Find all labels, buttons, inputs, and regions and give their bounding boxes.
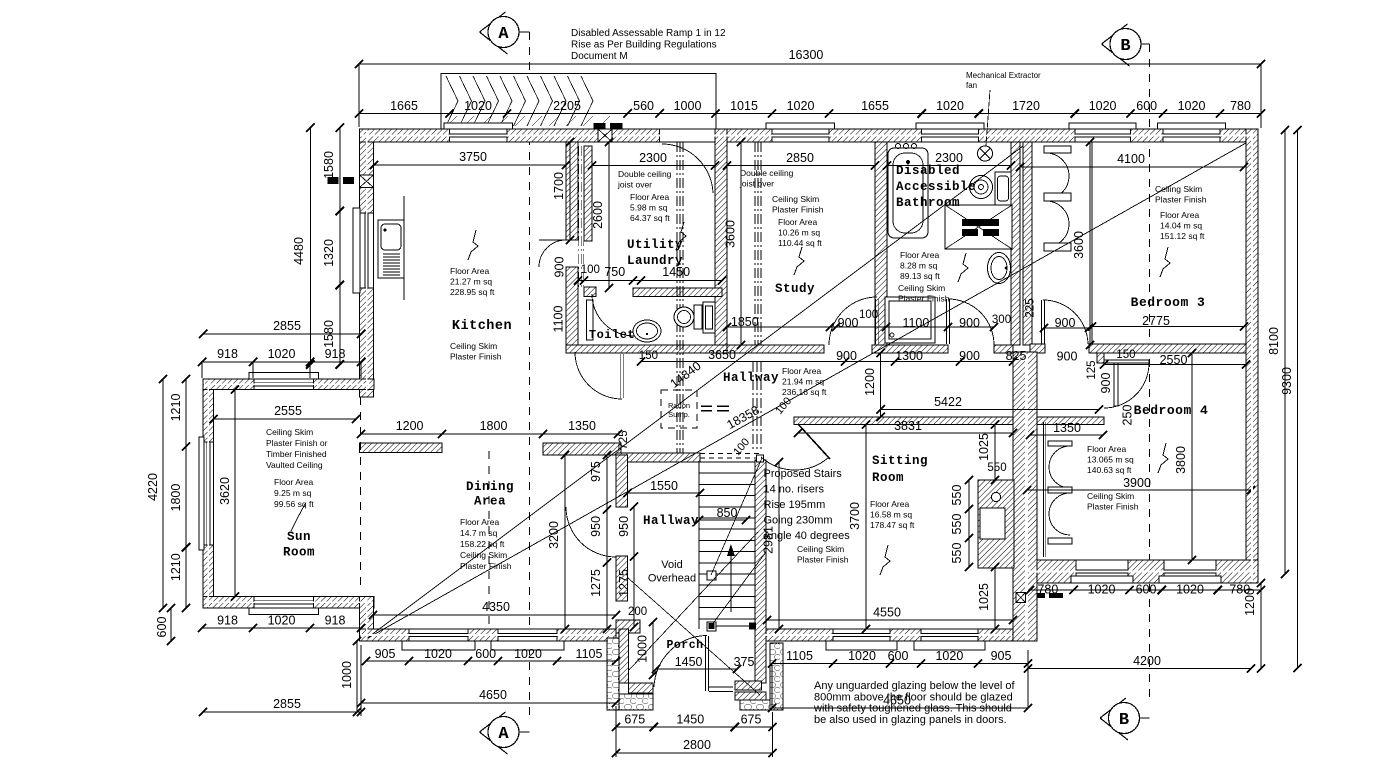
svg-text:1020: 1020 bbox=[464, 99, 492, 113]
svg-text:5.98 m sq: 5.98 m sq bbox=[630, 203, 668, 213]
svg-text:Any unguarded glazing below th: Any unguarded glazing below the level of bbox=[814, 680, 1016, 692]
wall study-bath divider bbox=[875, 142, 887, 345]
svg-text:1800: 1800 bbox=[169, 484, 183, 512]
svg-text:Vaulted Ceiling: Vaulted Ceiling bbox=[266, 460, 323, 470]
svg-text:joist over: joist over bbox=[739, 179, 774, 189]
svg-text:Sitting: Sitting bbox=[872, 454, 928, 468]
wall hall top d bbox=[994, 345, 1013, 353]
dim kitchen 3750 bbox=[374, 164, 566, 166]
window sitting b 1020 bbox=[921, 629, 978, 641]
bathroom shower bbox=[945, 205, 1012, 249]
svg-text:2981: 2981 bbox=[762, 526, 776, 554]
dim dining 3200 bbox=[564, 455, 566, 629]
svg-text:2775: 2775 bbox=[1142, 314, 1170, 328]
svg-text:2855: 2855 bbox=[273, 319, 301, 333]
svg-text:joist over: joist over bbox=[617, 180, 652, 190]
dpc marks left bbox=[328, 177, 339, 184]
svg-text:89.13 sq ft: 89.13 sq ft bbox=[900, 271, 940, 281]
svg-text:Ceiling Skim: Ceiling Skim bbox=[450, 341, 497, 351]
dim fireplace 1025 lower bbox=[994, 567, 996, 629]
svg-text:Ceiling Skim: Ceiling Skim bbox=[266, 427, 313, 437]
diagonal 18358 bbox=[366, 143, 1246, 639]
dim bed3 2775 bbox=[1092, 326, 1244, 328]
svg-text:Plaster Finish: Plaster Finish bbox=[772, 205, 824, 215]
svg-text:3620: 3620 bbox=[218, 477, 232, 505]
svg-text:1450: 1450 bbox=[676, 713, 704, 727]
dim sunroom 2555 bbox=[214, 418, 357, 420]
svg-text:550: 550 bbox=[987, 462, 1006, 474]
svg-text:4200: 4200 bbox=[1133, 654, 1161, 668]
svg-text:1100: 1100 bbox=[902, 316, 929, 330]
wall sunroom top bbox=[203, 379, 374, 390]
svg-text:Floor Area: Floor Area bbox=[900, 250, 939, 260]
svg-text:900: 900 bbox=[836, 349, 857, 363]
joist lines hallway bbox=[676, 142, 678, 453]
svg-text:918: 918 bbox=[217, 614, 238, 628]
svg-text:140.63 sq ft: 140.63 sq ft bbox=[1087, 465, 1132, 475]
svg-text:1450: 1450 bbox=[675, 655, 703, 669]
door bed4 bbox=[1104, 363, 1149, 408]
svg-text:1210: 1210 bbox=[169, 553, 183, 581]
toilet cistern bbox=[703, 302, 715, 333]
svg-text:200: 200 bbox=[628, 606, 647, 618]
joist lines kitchen-utility shaft bbox=[578, 146, 580, 290]
wall hall sw corner bbox=[616, 620, 640, 633]
wall bed3 closet front line bbox=[1091, 142, 1093, 345]
sunroom opening dashed line bbox=[360, 397, 362, 590]
utility bolt bbox=[676, 222, 686, 250]
flue box sitting wall bbox=[1016, 593, 1026, 603]
dim bottom 4650 bbox=[361, 702, 616, 704]
svg-text:Timber Finished: Timber Finished bbox=[266, 449, 327, 459]
wall bottom dining bbox=[360, 629, 617, 641]
svg-text:1020: 1020 bbox=[514, 647, 542, 661]
dim right 9300 bbox=[1297, 130, 1299, 668]
window dining b 1020 bbox=[498, 629, 557, 641]
svg-text:Rise 195mm: Rise 195mm bbox=[764, 499, 826, 511]
dim sitting 4550 bbox=[767, 619, 1013, 621]
svg-text:Dining: Dining bbox=[466, 480, 514, 494]
svg-text:Hallway: Hallway bbox=[643, 514, 699, 528]
svg-text:Ceiling Skim: Ceiling Skim bbox=[772, 194, 819, 204]
svg-text:Utility: Utility bbox=[627, 238, 683, 252]
dim sunroom 600 bbox=[170, 608, 172, 641]
dim sitting 5422 bbox=[881, 409, 1099, 411]
svg-text:1000: 1000 bbox=[674, 99, 702, 113]
svg-text:Kitchen: Kitchen bbox=[452, 319, 512, 334]
svg-text:3831: 3831 bbox=[894, 419, 922, 433]
svg-text:750: 750 bbox=[604, 265, 625, 279]
svg-text:850: 850 bbox=[717, 506, 738, 520]
dim hall row1 bbox=[727, 326, 994, 328]
study bolt bbox=[794, 247, 804, 275]
svg-text:725: 725 bbox=[618, 430, 630, 449]
dim right 8100 bbox=[1284, 130, 1286, 574]
svg-text:Floor Area: Floor Area bbox=[778, 217, 817, 227]
svg-text:1000: 1000 bbox=[636, 635, 650, 663]
dim sunroom 1210-1800-1210 bbox=[185, 379, 187, 608]
svg-text:550: 550 bbox=[950, 543, 964, 564]
wardrobe bifold bed4 bbox=[1043, 422, 1045, 557]
svg-text:1300: 1300 bbox=[895, 349, 923, 363]
svg-text:178.47 sq ft: 178.47 sq ft bbox=[870, 520, 915, 530]
svg-text:1200: 1200 bbox=[396, 419, 424, 433]
svg-text:Disabled Assessable Ramp 1 in: Disabled Assessable Ramp 1 in 12 bbox=[571, 28, 726, 39]
svg-text:1020: 1020 bbox=[936, 99, 964, 113]
wall porch right return bbox=[735, 681, 762, 690]
svg-text:Floor Area: Floor Area bbox=[1087, 444, 1126, 454]
svg-text:Floor Area: Floor Area bbox=[630, 192, 669, 202]
window sitting a 1020 bbox=[833, 629, 890, 641]
svg-text:Bathroom: Bathroom bbox=[896, 196, 960, 210]
svg-text:950: 950 bbox=[589, 516, 603, 537]
svg-text:1655: 1655 bbox=[861, 99, 889, 113]
kitchen bolt bbox=[468, 230, 478, 260]
svg-text:9300: 9300 bbox=[1280, 367, 1294, 395]
svg-text:Radon: Radon bbox=[668, 401, 690, 410]
flue box in top wall bbox=[598, 129, 612, 142]
svg-text:B: B bbox=[1119, 711, 1129, 730]
dim sitting 3700 bbox=[865, 425, 867, 630]
svg-text:3800: 3800 bbox=[1174, 446, 1188, 474]
dim sunroom 3620 bbox=[234, 390, 236, 597]
porch threshold lines bbox=[709, 686, 733, 688]
rubble porch left base bbox=[619, 694, 653, 710]
svg-text:1020: 1020 bbox=[848, 649, 876, 663]
svg-text:be also used in glazing panels: be also used in glazing panels in doors. bbox=[814, 714, 1007, 726]
svg-text:3700: 3700 bbox=[848, 502, 862, 530]
svg-text:2300: 2300 bbox=[935, 151, 963, 165]
svg-text:1020: 1020 bbox=[268, 347, 296, 361]
svg-text:A: A bbox=[498, 25, 509, 44]
svg-text:Floor Area: Floor Area bbox=[1160, 210, 1199, 220]
svg-text:1450: 1450 bbox=[662, 265, 690, 279]
svg-text:900: 900 bbox=[959, 349, 980, 363]
window kitchen left bbox=[360, 213, 374, 288]
dim bed3 door 900 bbox=[1044, 327, 1089, 329]
svg-text:3650: 3650 bbox=[708, 348, 736, 362]
open plan dashed line bbox=[488, 451, 490, 629]
section marker A top bbox=[480, 12, 508, 54]
wall sitting top bbox=[794, 417, 1104, 425]
svg-text:Accessible: Accessible bbox=[896, 180, 976, 194]
wall sitting right / bed4 left bbox=[1013, 352, 1037, 641]
kitchen counter line bbox=[403, 196, 405, 300]
wall hall void bbox=[616, 453, 700, 462]
dim bed4 2550 bbox=[1104, 364, 1246, 366]
svg-text:Plaster Finish: Plaster Finish bbox=[898, 294, 950, 304]
dim left 4480 bbox=[309, 128, 311, 365]
svg-text:780: 780 bbox=[1037, 583, 1058, 597]
svg-text:Angle 40 degrees: Angle 40 degrees bbox=[764, 530, 851, 542]
section marker B bottom bbox=[1100, 698, 1128, 740]
svg-text:550: 550 bbox=[950, 514, 964, 535]
svg-text:Bedroom 4: Bedroom 4 bbox=[1134, 403, 1209, 418]
bathroom bidet bbox=[988, 253, 1011, 284]
wall kitchen bottom west bbox=[360, 443, 443, 453]
svg-text:900: 900 bbox=[1055, 316, 1076, 330]
wall bed3 bottom west stub bbox=[1030, 344, 1045, 353]
svg-text:1015: 1015 bbox=[730, 99, 758, 113]
svg-text:1200: 1200 bbox=[863, 368, 877, 396]
vent marks above wall bbox=[593, 123, 605, 129]
window sunroom bottom bbox=[254, 597, 314, 609]
svg-text:1350: 1350 bbox=[1053, 421, 1081, 435]
svg-text:950: 950 bbox=[617, 516, 631, 537]
wall hall top c bbox=[872, 345, 948, 353]
svg-text:Going 230mm: Going 230mm bbox=[764, 515, 833, 527]
dim bottom 1000 bbox=[356, 641, 358, 712]
joist lines study bbox=[754, 142, 756, 345]
dim sunroom 4220 bbox=[162, 379, 164, 608]
svg-text:21.94 m sq: 21.94 m sq bbox=[782, 377, 824, 387]
sunroom pointer bbox=[291, 504, 305, 531]
svg-text:4650: 4650 bbox=[883, 694, 911, 708]
svg-text:13.065 m sq: 13.065 m sq bbox=[1087, 455, 1134, 465]
dim kitchen right 1700 bbox=[569, 142, 571, 240]
wall corridor west bbox=[1023, 142, 1032, 345]
rubble porch right base bbox=[740, 700, 783, 710]
svg-text:Floor Area: Floor Area bbox=[450, 266, 489, 276]
svg-text:Sump.: Sump. bbox=[668, 410, 690, 419]
dim porch 1450 inner bbox=[656, 668, 737, 670]
window top bed3 a 1020 bbox=[1075, 129, 1131, 142]
svg-text:918: 918 bbox=[325, 614, 346, 628]
svg-text:2850: 2850 bbox=[786, 151, 814, 165]
dim sitting 3831 bbox=[798, 432, 1013, 434]
svg-text:Plaster Finish: Plaster Finish bbox=[450, 352, 502, 362]
svg-text:1200: 1200 bbox=[1243, 588, 1257, 616]
svg-text:675: 675 bbox=[741, 713, 762, 727]
svg-text:Room: Room bbox=[283, 546, 315, 560]
svg-text:1850: 1850 bbox=[731, 315, 759, 329]
window top bath 1020 bbox=[922, 129, 979, 142]
svg-text:8100: 8100 bbox=[1267, 327, 1281, 355]
svg-text:150: 150 bbox=[639, 350, 658, 362]
svg-text:375: 375 bbox=[734, 655, 755, 669]
wall porch right base bbox=[735, 692, 766, 700]
wall toilet top bbox=[633, 288, 722, 297]
svg-text:1350: 1350 bbox=[568, 419, 596, 433]
svg-text:Disabled: Disabled bbox=[896, 164, 960, 178]
bed4 bolt bbox=[1158, 443, 1168, 473]
svg-text:228.95 sq ft: 228.95 sq ft bbox=[450, 287, 495, 297]
svg-text:600: 600 bbox=[155, 617, 169, 638]
svg-text:1100: 1100 bbox=[552, 306, 566, 333]
wall kitchen right upper bbox=[566, 142, 578, 240]
svg-text:560: 560 bbox=[633, 99, 654, 113]
svg-text:4550: 4550 bbox=[873, 606, 901, 620]
svg-text:Room: Room bbox=[872, 471, 904, 485]
svg-text:1580: 1580 bbox=[322, 151, 336, 179]
svg-text:225: 225 bbox=[1025, 298, 1037, 317]
svg-text:125: 125 bbox=[1086, 360, 1098, 379]
svg-text:3900: 3900 bbox=[1123, 476, 1151, 490]
window bed4 a 1020 bbox=[1076, 560, 1128, 583]
dim bottomrow W 905-1020-600-1020-1105 bbox=[366, 660, 616, 662]
svg-text:16300: 16300 bbox=[789, 48, 824, 62]
wall utility left pier bbox=[584, 287, 596, 297]
window bed4 b 1020 bbox=[1164, 560, 1216, 583]
svg-text:Study: Study bbox=[775, 282, 815, 296]
svg-text:99.56 sq ft: 99.56 sq ft bbox=[274, 499, 314, 509]
svg-text:Void: Void bbox=[661, 559, 682, 571]
svg-text:21.27 m sq: 21.27 m sq bbox=[450, 277, 492, 287]
svg-text:1020: 1020 bbox=[1088, 583, 1116, 597]
bathroom wc bbox=[970, 176, 993, 199]
ramp outline bbox=[441, 74, 716, 130]
dim hall row2 bbox=[641, 361, 1013, 363]
wall porch left return bbox=[629, 683, 654, 693]
door porch bbox=[654, 636, 707, 688]
svg-text:550: 550 bbox=[950, 485, 964, 506]
svg-text:Plaster Finish: Plaster Finish bbox=[1087, 502, 1139, 512]
svg-text:900: 900 bbox=[959, 316, 980, 330]
svg-text:100: 100 bbox=[581, 264, 600, 276]
svg-text:Floor Area: Floor Area bbox=[782, 366, 821, 376]
door kitchen bbox=[539, 240, 566, 267]
svg-text:1020: 1020 bbox=[1178, 99, 1206, 113]
svg-text:1275: 1275 bbox=[617, 569, 631, 597]
shower cubicle hall bbox=[885, 297, 935, 343]
dim hall 975-950-1275 bbox=[606, 455, 608, 629]
svg-text:1000: 1000 bbox=[340, 661, 354, 689]
joist lines hall-stairs bbox=[752, 362, 754, 452]
svg-text:9.25 m sq: 9.25 m sq bbox=[274, 488, 312, 498]
vent marks bed4 bbox=[1031, 593, 1045, 598]
svg-text:1025: 1025 bbox=[977, 583, 991, 611]
section line B dashed bbox=[1149, 44, 1151, 700]
bed4 door head line bbox=[1104, 360, 1149, 363]
svg-text:1800: 1800 bbox=[480, 419, 508, 433]
svg-text:1105: 1105 bbox=[576, 647, 603, 661]
door bed3 bbox=[1043, 300, 1088, 344]
svg-text:with safety toughened glass. T: with safety toughened glass. This should bbox=[813, 703, 1012, 715]
svg-text:4650: 4650 bbox=[479, 688, 507, 702]
dim left 918-1020-918 top bbox=[202, 361, 361, 363]
svg-text:3600: 3600 bbox=[724, 220, 738, 248]
door bathroom bbox=[948, 299, 994, 345]
wall dining-hall divider lower bbox=[616, 556, 628, 601]
cavity lines exterior walls bbox=[361, 135, 598, 137]
porch door pivot squares bbox=[709, 623, 715, 629]
dim fireplace 550s bbox=[968, 480, 970, 567]
door dining bbox=[566, 507, 616, 557]
svg-text:2800: 2800 bbox=[683, 738, 711, 752]
svg-text:1020: 1020 bbox=[935, 649, 963, 663]
wall top exterior bbox=[360, 129, 1259, 142]
section line A dashed bbox=[529, 32, 531, 718]
toilet door leaf bbox=[587, 300, 594, 340]
svg-text:Ceiling Skim: Ceiling Skim bbox=[898, 283, 945, 293]
wall kitchen right lower bbox=[566, 267, 578, 353]
svg-text:905: 905 bbox=[991, 649, 1012, 663]
svg-text:16.58 m sq: 16.58 m sq bbox=[870, 510, 912, 520]
svg-text:1020: 1020 bbox=[787, 99, 815, 113]
svg-text:236.16 sq ft: 236.16 sq ft bbox=[782, 387, 827, 397]
wall right exterior bbox=[1246, 129, 1258, 583]
wall bedroom4 bottom bbox=[1027, 560, 1258, 583]
svg-text:250: 250 bbox=[1120, 405, 1134, 426]
wall dining-hall divider upper bbox=[616, 455, 628, 507]
ramp chevron hatch bbox=[446, 76, 458, 126]
svg-text:Ceiling Skim: Ceiling Skim bbox=[460, 550, 507, 560]
door toilet bbox=[592, 294, 634, 336]
wall bottom sitting bbox=[764, 629, 1013, 641]
section marker A bottom bbox=[480, 712, 508, 754]
dim bottom 2855 bbox=[203, 711, 361, 713]
svg-text:A: A bbox=[498, 725, 509, 744]
dim utility 2600 bbox=[608, 142, 610, 288]
svg-text:1320: 1320 bbox=[322, 239, 336, 267]
door utility from entrance bbox=[662, 144, 713, 193]
svg-text:10.26 m sq: 10.26 m sq bbox=[778, 228, 820, 238]
svg-text:Overhead: Overhead bbox=[648, 573, 696, 585]
svg-text:2205: 2205 bbox=[553, 99, 581, 113]
wardrobe bifold corridor bbox=[1044, 146, 1071, 153]
door top entrance 1000 bbox=[660, 129, 716, 142]
svg-text:1105: 1105 bbox=[786, 649, 813, 663]
svg-text:600: 600 bbox=[888, 649, 909, 663]
svg-text:3200: 3200 bbox=[547, 521, 561, 549]
dim left 1580-1320-1580 bbox=[339, 128, 341, 365]
wall hall top b bbox=[727, 345, 824, 353]
svg-text:1210: 1210 bbox=[169, 394, 183, 422]
svg-text:158.22 sq ft: 158.22 sq ft bbox=[460, 539, 505, 549]
wall porch left vertical bbox=[619, 629, 629, 683]
bathroom bolt bbox=[958, 253, 968, 282]
wall bath east bbox=[1011, 142, 1020, 345]
svg-text:Sun: Sun bbox=[287, 530, 311, 544]
svg-text:900: 900 bbox=[553, 257, 567, 278]
svg-text:900: 900 bbox=[1099, 373, 1113, 394]
bath taps bbox=[896, 144, 901, 149]
wall utility left bbox=[584, 146, 592, 241]
svg-text:4220: 4220 bbox=[146, 473, 160, 501]
svg-text:Area: Area bbox=[474, 495, 506, 509]
svg-text:1720: 1720 bbox=[1012, 99, 1040, 113]
dim porch 1000 bbox=[652, 622, 654, 675]
svg-text:1020: 1020 bbox=[1176, 583, 1204, 597]
flue box left wall bbox=[360, 175, 374, 188]
dim bed4 3800 bbox=[1191, 353, 1193, 560]
svg-text:Document M: Document M bbox=[571, 51, 628, 62]
svg-text:Proposed Stairs: Proposed Stairs bbox=[764, 468, 843, 480]
svg-text:800mm above the floor should b: 800mm above the floor should be glazed bbox=[814, 691, 1013, 703]
svg-text:Plaster Finish: Plaster Finish bbox=[1155, 195, 1207, 205]
dim bed4 4200 bbox=[1028, 668, 1251, 670]
svg-text:100: 100 bbox=[859, 309, 878, 321]
svg-text:Ceiling Skim: Ceiling Skim bbox=[1087, 491, 1134, 501]
stair treads bbox=[699, 461, 755, 463]
svg-text:1550: 1550 bbox=[650, 479, 678, 493]
dim bed4 bottomrow bbox=[1030, 589, 1261, 591]
svg-text:Porch: Porch bbox=[666, 639, 703, 652]
svg-text:Ceiling Skim: Ceiling Skim bbox=[1155, 184, 1202, 194]
dim bath 2300 bbox=[887, 165, 1011, 167]
svg-text:14.7 m sq: 14.7 m sq bbox=[460, 528, 498, 538]
ramp lower hatch bbox=[447, 116, 457, 126]
svg-text:1700: 1700 bbox=[552, 172, 566, 200]
svg-text:4350: 4350 bbox=[482, 600, 510, 614]
porch door head line bbox=[711, 625, 755, 627]
wall bed3-bed4 divider bbox=[1089, 344, 1246, 353]
sitting bolt bbox=[880, 545, 890, 575]
dim fireplace 1025 upper bbox=[994, 425, 996, 481]
svg-text:14.04 m sq: 14.04 m sq bbox=[1160, 221, 1202, 231]
extractor fan symbol bbox=[978, 146, 993, 161]
wall kitchen bottom east bbox=[543, 443, 621, 455]
